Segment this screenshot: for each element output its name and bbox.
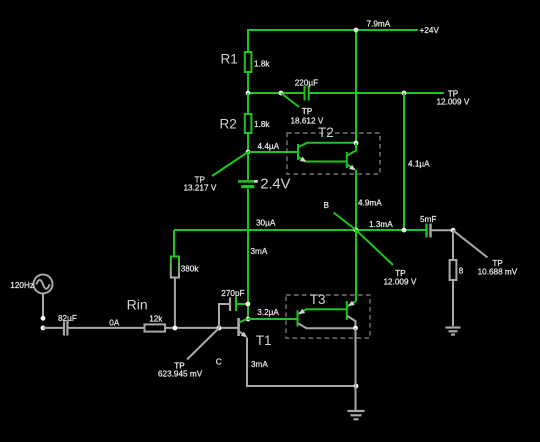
svg-text:R2: R2	[220, 117, 237, 132]
node TP tap mid rail	[279, 91, 284, 96]
wire main rail y=230	[174, 229, 426, 231]
node R1 bottom	[246, 91, 251, 96]
svg-text:4.9mA: 4.9mA	[358, 199, 382, 208]
T3b emitter from top (arrow to bar)	[347, 301, 356, 307]
svg-text:TP: TP	[302, 107, 313, 116]
T1 collector (green)	[239, 319, 247, 323]
AC source 120Hz	[10, 275, 52, 331]
wire top to T3b emitter	[355, 230, 357, 301]
T3a base bar	[297, 310, 299, 326]
svg-text:T1: T1	[256, 333, 272, 348]
T3b base bar	[346, 301, 348, 320]
T2b collector	[347, 143, 356, 156]
svg-text:3mA: 3mA	[251, 247, 268, 256]
label TP 12.009 V right	[437, 90, 470, 107]
svg-text:270pF: 270pF	[221, 289, 244, 298]
battery 2.4V	[238, 152, 291, 193]
wire mid rail y=93	[248, 92, 304, 94]
svg-text:3.2µA: 3.2µA	[257, 308, 279, 317]
resistor R2	[220, 93, 271, 152]
label TP 10.688 mV	[478, 259, 518, 276]
wire T3 output down to ground	[355, 328, 357, 410]
node junction top rail	[354, 28, 359, 33]
svg-text:4.4µA: 4.4µA	[258, 142, 280, 151]
wire cap to 12k	[68, 327, 144, 329]
svg-text:8: 8	[459, 267, 464, 276]
svg-text:13.217 V: 13.217 V	[184, 183, 217, 192]
T2b emitter with arrow	[347, 165, 355, 171]
svg-text:10.688 mV: 10.688 mV	[478, 267, 518, 276]
svg-text:Rin: Rin	[127, 297, 148, 313]
svg-text:220µF: 220µF	[295, 78, 318, 87]
transistor T3 (darlington pair)	[286, 292, 370, 338]
svg-text:1.8k: 1.8k	[254, 59, 270, 68]
node R2 bottom	[246, 150, 251, 155]
resistor 8 ohm load	[450, 230, 464, 326]
node load junction	[451, 228, 456, 233]
svg-text:30µA: 30µA	[256, 219, 276, 228]
svg-text:12.009 V: 12.009 V	[437, 97, 470, 106]
resistor 12k	[145, 315, 166, 332]
T3a collector (gray)	[298, 323, 355, 328]
TP pointer 10.688	[453, 230, 488, 257]
TP pointer 623.945	[187, 328, 219, 360]
node T1 collector junction	[246, 317, 251, 322]
label TP 18.612 V	[291, 107, 324, 125]
wire 12k to T1 base	[165, 327, 238, 329]
svg-text:T2: T2	[318, 125, 334, 140]
wire R2 node to T2 base	[248, 151, 297, 153]
ground load	[446, 328, 461, 335]
wire R1 bottom to node	[247, 72, 249, 93]
svg-text:T3: T3	[310, 292, 326, 307]
wire input left	[43, 327, 63, 329]
svg-text:4.1µA: 4.1µA	[408, 160, 430, 169]
wire T2 emitter down	[355, 170, 357, 230]
label TP 13.217 V	[184, 175, 217, 192]
node T3 output	[353, 326, 358, 331]
T2a base bar	[297, 144, 299, 160]
T2a emitter with arrow	[299, 157, 347, 163]
resistor 380k	[171, 230, 200, 328]
TP pointer 13.217	[212, 152, 248, 176]
svg-text:2.4V: 2.4V	[260, 176, 290, 193]
svg-text:B: B	[324, 201, 330, 210]
wire battery down to T1 collector	[247, 189, 249, 319]
wire from top rail down to T2 collector	[355, 30, 357, 143]
T3b collector (gray)	[347, 316, 355, 328]
label TP 623.945 mV	[158, 361, 203, 378]
node label B pointer	[334, 213, 357, 231]
transistor T2 (darlington pair)	[287, 125, 380, 174]
capacitor 220uF	[295, 78, 318, 100]
node main rail T2 emitter	[354, 228, 359, 233]
wire 3.2uA T1 collector to T3	[248, 318, 297, 320]
svg-text:120Hz: 120Hz	[10, 281, 34, 290]
svg-text:5mF: 5mF	[420, 215, 436, 224]
capacitor 82uF	[58, 314, 77, 336]
svg-text:12k: 12k	[149, 315, 163, 324]
T1 emitter with arrow	[239, 332, 247, 338]
svg-text:R1: R1	[221, 51, 238, 66]
svg-text:18.612 V: 18.612 V	[291, 116, 324, 125]
node 380k junction	[173, 326, 178, 331]
node T2 collector	[354, 141, 359, 146]
svg-text:12.009 V: 12.009 V	[384, 277, 417, 286]
svg-text:623.945 mV: 623.945 mV	[158, 369, 203, 378]
TP pointer 12.009 main rail	[356, 230, 393, 265]
svg-text:3mA: 3mA	[251, 360, 268, 369]
svg-text:1.3mA: 1.3mA	[369, 220, 393, 229]
wire T1 emitter down and to ground rail	[247, 338, 356, 387]
wire 5mF to load	[432, 229, 454, 231]
capacitor 270pF branch	[219, 289, 248, 328]
svg-text:82µF: 82µF	[58, 314, 77, 323]
T3a emitter (arrow to bar)	[298, 309, 346, 315]
capacitor 5mF	[420, 215, 436, 238]
wire mid rail right part	[310, 92, 445, 94]
ground main	[348, 411, 365, 419]
transistor T1	[239, 318, 272, 348]
svg-text:0A: 0A	[109, 319, 120, 328]
svg-text:1.8k: 1.8k	[254, 120, 270, 129]
wire 4.1uA branch down	[403, 93, 405, 230]
resistor R1	[221, 51, 271, 72]
TP pointer 18.612	[281, 93, 299, 107]
svg-text:7.9mA: 7.9mA	[367, 20, 391, 29]
node T1 base junction	[217, 326, 222, 331]
T2a collector	[299, 143, 357, 147]
node ground rail	[354, 384, 359, 389]
node mid rail right	[402, 91, 407, 96]
node 270pF junction	[246, 302, 251, 307]
label TP 12.009 V	[384, 269, 417, 286]
svg-text:380k: 380k	[181, 264, 200, 273]
wire top rail +24V	[248, 30, 418, 52]
T2b base bar	[346, 152, 348, 168]
svg-text:C: C	[216, 357, 222, 366]
svg-text:+24V: +24V	[420, 26, 440, 35]
node main rail right	[402, 228, 407, 233]
